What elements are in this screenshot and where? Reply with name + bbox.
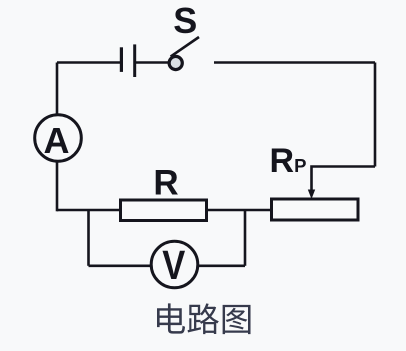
wiper arrowhead bbox=[308, 190, 315, 200]
wire: battery to switch bbox=[135, 61, 168, 64]
wire: right vertical bbox=[374, 63, 377, 167]
wire: voltmeter left horizontal bbox=[89, 264, 153, 267]
battery cell (long plate, positive) bbox=[133, 44, 136, 77]
resistor R body bbox=[121, 200, 207, 221]
node: left voltmeter junction + wire down bbox=[87, 210, 90, 266]
wire: voltmeter right horizontal bbox=[197, 264, 245, 267]
svg-text:R: R bbox=[153, 163, 178, 202]
switch S lever (open) bbox=[171, 37, 199, 57]
battery cell (short plate, negative) bbox=[120, 47, 123, 72]
svg-text:V: V bbox=[162, 242, 185, 288]
switch S pivot circle bbox=[169, 56, 182, 69]
wire: switch to top-right corner bbox=[214, 61, 375, 64]
wire: top-left horizontal (corner to battery) bbox=[57, 61, 121, 64]
wire: left vertical below ammeter bbox=[56, 162, 59, 212]
svg-text:S: S bbox=[173, 0, 197, 41]
wire: bottom main line bbox=[57, 209, 272, 212]
rheostat RP body bbox=[272, 199, 359, 220]
caption 电路图 bbox=[157, 303, 251, 334]
node: right voltmeter junction + wire up bbox=[244, 210, 247, 266]
svg-text:A: A bbox=[44, 120, 70, 161]
wire: elbow to wiper bbox=[312, 167, 376, 193]
voltmeter V1 circle bbox=[151, 241, 198, 288]
wire: left vertical above ammeter bbox=[56, 63, 59, 116]
ammeter A1 circle bbox=[35, 115, 82, 162]
